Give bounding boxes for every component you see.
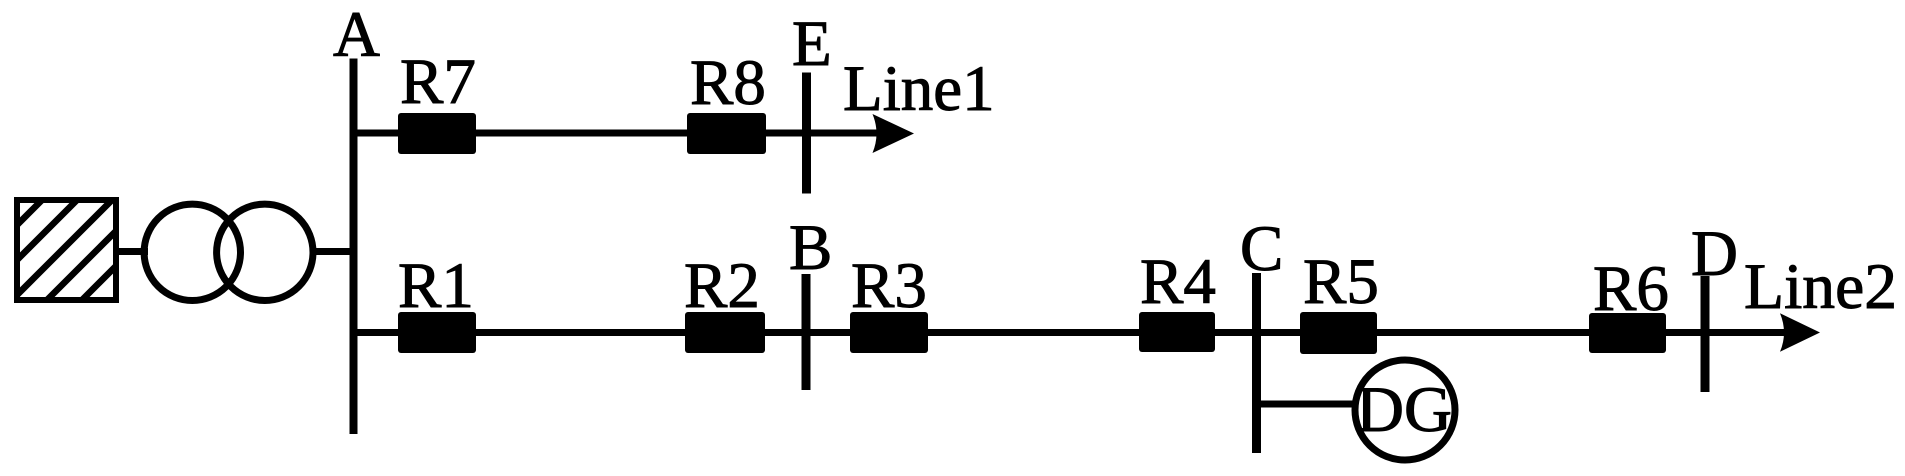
wire Line1 feeder	[354, 130, 881, 137]
svg-text:R6: R6	[1593, 253, 1669, 325]
svg-text:C: C	[1240, 213, 1283, 285]
breaker R3	[850, 312, 928, 353]
arrow Line2	[1780, 313, 1820, 352]
bus B	[802, 274, 811, 390]
svg-text:R5: R5	[1303, 246, 1379, 318]
svg-text:R4: R4	[1140, 246, 1216, 318]
breaker R8	[687, 113, 766, 154]
wire source to transformer	[116, 248, 148, 255]
svg-text:DG: DG	[1356, 374, 1452, 446]
svg-text:R8: R8	[690, 47, 766, 119]
svg-text:Line1: Line1	[843, 53, 995, 125]
transformer T1	[144, 204, 313, 300]
svg-text:R3: R3	[851, 250, 927, 322]
arrow Line1	[873, 114, 915, 153]
wire bus C to DG	[1257, 401, 1356, 408]
breaker R2	[685, 312, 765, 353]
wire Line2 feeder	[354, 329, 1787, 336]
bus A	[350, 59, 358, 435]
breaker R4	[1139, 312, 1215, 352]
breaker R1	[398, 312, 476, 353]
bus D	[1701, 276, 1710, 392]
svg-text:A: A	[333, 0, 380, 71]
wire transformer to bus A	[310, 248, 357, 255]
bus E	[802, 73, 811, 194]
svg-text:E: E	[792, 8, 832, 80]
bus C	[1252, 273, 1261, 453]
breaker R6	[1589, 313, 1666, 353]
svg-text:R7: R7	[400, 46, 476, 118]
breaker R7	[398, 113, 476, 154]
svg-text:B: B	[789, 212, 832, 284]
breaker R5	[1300, 312, 1377, 354]
generator DG circle	[1355, 360, 1455, 460]
source S (hatched square)	[0, 180, 237, 320]
svg-text:D: D	[1691, 218, 1738, 290]
svg-text:R1: R1	[398, 250, 474, 322]
svg-text:Line2: Line2	[1744, 251, 1897, 323]
svg-text:R2: R2	[684, 250, 760, 322]
